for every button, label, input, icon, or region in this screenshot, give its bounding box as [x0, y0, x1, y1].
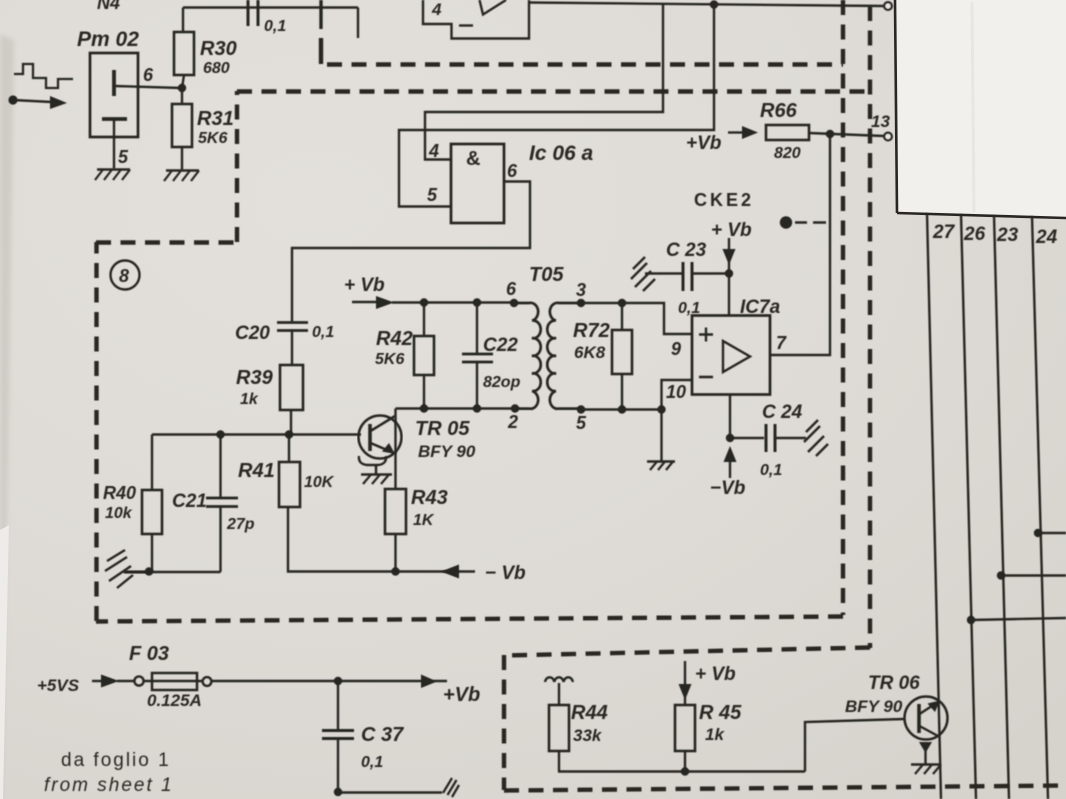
- ground Pm02 pin5 hatches: [95, 170, 130, 181]
- svg-text:8: 8: [119, 266, 129, 286]
- -Vb rail arrow head: [441, 565, 459, 579]
- svg-text:1K: 1K: [413, 512, 435, 529]
- junction dot R72 bottom: [618, 405, 626, 413]
- svg-text:R66: R66: [760, 100, 798, 122]
- wire R44 upper lead: [558, 683, 560, 705]
- junction dot base rail R39/R41: [285, 430, 293, 438]
- svg-text:0,1: 0,1: [760, 462, 782, 479]
- svg-text:C 37: C 37: [361, 724, 404, 746]
- wire R39 to base rail: [290, 410, 292, 435]
- transistor TR05 emitter diagonal: [371, 443, 394, 453]
- svg-text:26: 26: [963, 224, 986, 245]
- resistor R72 leads: [621, 303, 623, 410]
- svg-text:10: 10: [666, 382, 686, 402]
- op-amp IC7a triangle: [723, 341, 750, 372]
- wire IC7a pin10 path: [662, 380, 693, 410]
- junction dot +Vb rail R42: [420, 298, 428, 306]
- wire IC7a bottom supply: [729, 394, 731, 438]
- junction dot winding2 bottom: [511, 404, 519, 412]
- svg-text:10k: 10k: [105, 505, 133, 522]
- wire +Vb rail y302: [392, 301, 514, 303]
- svg-text:TR 06: TR 06: [868, 673, 920, 694]
- svg-text:680: 680: [203, 60, 230, 77]
- wire pin26 branch right: [971, 618, 1066, 620]
- svg-text:Ic 06 a: Ic 06 a: [529, 142, 594, 165]
- terminal top right circle: [884, 2, 892, 10]
- wire R43 lower lead: [394, 534, 396, 572]
- wire ground to rail left segment: [124, 571, 150, 573]
- svg-text:3: 3: [576, 280, 586, 300]
- svg-text:5: 5: [118, 147, 129, 167]
- wire C37 to bottom ground: [338, 791, 442, 793]
- svg-text:33k: 33k: [573, 726, 603, 745]
- svg-text:− Vb: − Vb: [485, 563, 526, 584]
- node CKE2 dot dashes: [795, 221, 826, 224]
- transistor TR06 circle: [905, 697, 948, 740]
- svg-text:27p: 27p: [226, 516, 255, 533]
- resistor R42 leads: [423, 303, 425, 409]
- dashed boundary vertical x237: [235, 91, 239, 242]
- junction dot winding5 bottom: [577, 405, 585, 413]
- wire R31 to ground: [181, 147, 183, 170]
- wire C24 left lead: [730, 437, 764, 439]
- wire top N4 horizontal: [183, 6, 358, 8]
- resistor R72 body: [612, 330, 632, 374]
- wire Pm02 pin5: [113, 119, 115, 169]
- wire TR05 base rail: [152, 433, 361, 435]
- wire IC7a pin7 output: [770, 134, 830, 355]
- wire R45 upper lead: [684, 697, 686, 705]
- svg-text:R31: R31: [197, 108, 234, 130]
- transistor TR05 circle: [359, 416, 402, 459]
- +Vb arrow right triangle R66: [742, 126, 758, 139]
- transistor TR06 emitter arrow: [928, 701, 941, 713]
- svg-text:R43: R43: [411, 487, 448, 509]
- svg-text:CKE2: CKE2: [694, 190, 754, 210]
- svg-text:+ Vb: + Vb: [344, 275, 385, 296]
- Pm02 crystal bar: [112, 70, 116, 96]
- junction dot C37 bottom: [334, 788, 342, 796]
- dashed boundary lower box bottom y790: [504, 786, 1066, 791]
- signal arrow line: [13, 100, 52, 102]
- wire R30 bottom to junction: [182, 75, 184, 104]
- +Vb arrow down triangle: [723, 249, 736, 265]
- resistor R43 body: [385, 489, 406, 534]
- capacitor C23 plates: [683, 262, 692, 291]
- wire +5VS lead: [92, 680, 102, 682]
- ground under TR06 hatches: [915, 765, 941, 775]
- svg-text:0,1: 0,1: [264, 18, 286, 35]
- capacitor C21 plates: [206, 498, 238, 507]
- svg-text:1k: 1k: [705, 725, 725, 744]
- svg-text:R41: R41: [238, 460, 275, 482]
- svg-text:IC7a: IC7a: [740, 297, 781, 318]
- junction dot C23 +Vb node: [725, 269, 733, 277]
- svg-text:R44: R44: [571, 702, 608, 724]
- wire C23 right lead to +Vb node: [692, 272, 729, 274]
- svg-text:da foglio 1: da foglio 1: [61, 750, 171, 771]
- wire pin24 branch right: [1038, 532, 1066, 534]
- connector pin27 line: [927, 213, 941, 799]
- wire R45 +Vb arrow lead: [684, 661, 686, 685]
- ground under TR05 bar: [361, 473, 392, 476]
- junction dot winding3 top: [577, 299, 585, 307]
- transistor TR06 base bar: [917, 704, 921, 733]
- wire -Vb arrow stem: [729, 462, 731, 478]
- capacitor C21 upper lead: [219, 435, 221, 498]
- resistor R39 body: [280, 365, 303, 410]
- junction dot pin10 ground: [657, 405, 665, 413]
- svg-text:R39: R39: [236, 367, 274, 389]
- ground bottom edge hatches: [443, 778, 459, 797]
- wire R44 lower lead: [558, 751, 560, 772]
- svg-text:5: 5: [427, 185, 438, 205]
- junction dot R30/R31: [178, 84, 186, 92]
- svg-text:T05: T05: [529, 264, 564, 286]
- svg-text:+Vb: +Vb: [686, 133, 722, 154]
- wire ground rail left segment: [124, 571, 221, 573]
- wire Pm02 pin6 to R30/R31 junction: [115, 86, 181, 88]
- transistor TR06 can arrow down: [919, 742, 932, 753]
- capacitor C37 upper lead: [337, 681, 339, 730]
- ground under TR05 hatches: [363, 475, 389, 485]
- ground for C23 hatches: [631, 257, 655, 291]
- paper left edge dark strip: [0, 34, 14, 799]
- wire arrow to fuse circle: [117, 680, 134, 682]
- +Vb arrow down triangle R45: [679, 684, 692, 700]
- svg-text:R30: R30: [200, 38, 237, 60]
- transistor TR05 can arc: [359, 456, 386, 465]
- transistor TR06 emitter diagonal up: [920, 702, 939, 714]
- ground R31 hatches: [164, 171, 199, 182]
- resistor R41 body: [279, 462, 300, 507]
- ground Pm02 pin5 bar: [97, 168, 130, 171]
- capacitor C24 plates: [766, 424, 775, 452]
- svg-text:23: 23: [996, 225, 1019, 246]
- junction dot pin23 branch: [997, 571, 1005, 579]
- ground R31 bar: [166, 169, 199, 172]
- junction dot C37 tap: [334, 677, 342, 685]
- fuse F03 left circle: [134, 676, 143, 685]
- wire R45 lower lead: [684, 751, 686, 772]
- wire NAND output pin6 path: [292, 182, 530, 323]
- node 8 circle: [111, 261, 140, 290]
- svg-text:820: 820: [774, 145, 801, 162]
- white module block top right: [895, 0, 1066, 218]
- svg-text:7: 7: [776, 333, 787, 353]
- svg-text:0,1: 0,1: [361, 754, 383, 771]
- wire corner x358 into dashed block: [357, 8, 359, 39]
- capacitor 0,1 top plates: [248, 0, 258, 26]
- junction dot collector rail C22: [473, 404, 481, 412]
- dashed boundary vertical x870: [868, 6, 872, 648]
- svg-text:2: 2: [507, 412, 518, 432]
- transistor TR05 base bar: [368, 424, 372, 451]
- svg-text:5K6: 5K6: [198, 130, 227, 147]
- wire C23 left lead: [645, 272, 682, 274]
- svg-text:C 24: C 24: [762, 402, 803, 423]
- wire TR05 collector rail y408: [396, 407, 516, 409]
- svg-text:0.125A: 0.125A: [147, 691, 202, 710]
- svg-text:N4: N4: [97, 0, 120, 13]
- transistor TR05 collector/emitter vertical: [394, 409, 396, 490]
- wire R40 upper lead: [151, 435, 153, 491]
- signal arrow head: [50, 96, 67, 109]
- svg-text:6K8: 6K8: [574, 343, 606, 362]
- wire ground drop below pin10 junction: [660, 410, 662, 462]
- NAND Ic06a box: [451, 144, 504, 223]
- svg-text:13: 13: [871, 112, 890, 131]
- ground below transformer bar: [647, 460, 675, 463]
- wire secondary bottom rail: [581, 408, 662, 410]
- resistor R31 body: [172, 104, 192, 147]
- svg-text:+ Vb: + Vb: [711, 220, 752, 241]
- signal dot: [8, 95, 17, 104]
- svg-text:BFY 90: BFY 90: [845, 697, 903, 716]
- ground left of -Vb rail hatches: [105, 550, 133, 588]
- svg-text:6: 6: [506, 279, 517, 299]
- dashed boundary y650 lower box top: [504, 648, 870, 656]
- svg-text:5K6: 5K6: [375, 351, 404, 368]
- capacitor C37 plates: [322, 731, 354, 739]
- svg-text:6: 6: [507, 161, 518, 181]
- svg-text:6: 6: [143, 65, 154, 85]
- svg-text:0,1: 0,1: [312, 324, 334, 341]
- ground under TR06 bar: [911, 763, 939, 766]
- transistor TR06 can stem: [924, 751, 926, 764]
- dashed boundary top horizontal y64: [327, 62, 843, 66]
- +5VS arrow head: [101, 675, 119, 688]
- svg-text:+Vb: +Vb: [443, 684, 480, 706]
- svg-text:82op: 82op: [483, 374, 521, 391]
- svg-text:R72: R72: [573, 320, 610, 342]
- junction dot pin24 branch: [1034, 529, 1042, 537]
- wire fuse to +Vb: [212, 680, 447, 682]
- svg-text:R 45: R 45: [699, 702, 742, 724]
- waveform step symbol: [14, 64, 73, 88]
- transformer T05 primary winding: [514, 303, 541, 409]
- wire R41 lower lead and -Vb rail: [288, 507, 475, 572]
- svg-text:F 03: F 03: [129, 643, 169, 665]
- Pm02 lower contact bar: [102, 117, 127, 121]
- svg-text:BFY 90: BFY 90: [418, 442, 476, 461]
- svg-text:−Vb: −Vb: [710, 478, 746, 499]
- dashed boundary vertical at x321 upper: [319, 38, 323, 64]
- transistor TR05 can stem: [375, 465, 378, 475]
- fuse F03 right circle: [203, 677, 212, 686]
- wire top rail to terminal: [529, 3, 884, 7]
- svg-text:Pm 02: Pm 02: [77, 28, 139, 51]
- wire +Vb node arrow lead upper: [728, 238, 730, 249]
- svg-text:4: 4: [431, 0, 442, 19]
- svg-text:C20: C20: [235, 323, 270, 344]
- +Vb oscillator arrow head: [376, 296, 394, 309]
- wire R66 to pin13: [809, 133, 884, 136]
- svg-text:+5VS: +5VS: [37, 676, 80, 695]
- capacitor C22 plates: [462, 354, 493, 362]
- junction dot +Vb rail C22: [473, 298, 481, 306]
- op-amp U(top) box outline: [423, 0, 529, 39]
- capacitor C20 lead lower: [291, 331, 293, 365]
- ground for C24 hatches: [804, 420, 828, 456]
- connector pin26 line: [961, 214, 976, 799]
- junction dot R45 bottom: [681, 767, 689, 775]
- svg-text:1k: 1k: [240, 391, 259, 408]
- wire R40 lower lead: [151, 534, 153, 572]
- capacitor C22 leads: [476, 303, 478, 409]
- svg-text:from sheet 1: from sheet 1: [44, 775, 174, 796]
- transformer T05 secondary winding: [547, 303, 581, 409]
- capacitor C37 lower lead: [337, 739, 339, 792]
- wire +Vb oscillator rail lead: [352, 301, 376, 303]
- resistor R66 body: [766, 125, 809, 140]
- junction dot winding6 top: [510, 299, 518, 307]
- svg-text:C21: C21: [172, 491, 207, 512]
- Pm02 box: [90, 53, 138, 137]
- svg-text:4: 4: [428, 141, 439, 161]
- white block bottom edge: [897, 213, 1066, 218]
- capacitor C21 lower lead: [219, 507, 221, 572]
- node CKE2 dot: [780, 216, 792, 228]
- op-amp IC7a plus sign: [699, 328, 713, 342]
- junction dot R66 output: [826, 130, 834, 138]
- white block left edge: [895, 0, 897, 213]
- white block fold line: [972, 2, 974, 212]
- junction dot base rail C21: [216, 430, 224, 438]
- op-amp U(top) triangle partial: [480, 0, 507, 15]
- junction dot -Vb rail R43: [391, 567, 399, 575]
- crown symbol above R44: [545, 677, 573, 682]
- resistor R42 body: [414, 336, 434, 375]
- wire +Vb node into IC7a top: [728, 260, 730, 316]
- transistor TR05 collector diagonal: [371, 416, 396, 431]
- wire TR06 base from R45 rail: [805, 719, 904, 772]
- resistor R45 body: [675, 705, 695, 751]
- junction dot top rail x714: [710, 0, 718, 8]
- wire +Vb lead to R66: [728, 131, 742, 133]
- dashed boundary y91 horizontal: [237, 89, 870, 93]
- svg-text:9: 9: [671, 339, 681, 359]
- ground below transformer hatches: [650, 462, 673, 471]
- +Vb arrow head bottom: [421, 675, 437, 689]
- wire R41 upper lead: [288, 435, 290, 463]
- svg-text:TR 05: TR 05: [415, 418, 470, 440]
- connector pin24 line: [1032, 216, 1048, 799]
- -Vb arrow up triangle: [724, 446, 737, 462]
- connector pin23 line: [994, 215, 1009, 799]
- wire secondary top to pin9 corner: [581, 303, 692, 334]
- svg-text:R40: R40: [103, 483, 136, 503]
- junction dot collector rail R42: [420, 404, 428, 412]
- wire NAND pin4 path: [425, 4, 663, 160]
- wire R30 top riser: [182, 8, 184, 33]
- svg-text:27: 27: [932, 222, 956, 243]
- dashed boundary box8 left x96: [94, 242, 98, 621]
- svg-text:C22: C22: [483, 335, 518, 356]
- op-amp U(top) minus input bar: [459, 24, 473, 26]
- junction dot pin26 branch: [967, 616, 975, 624]
- resistor R30 body: [174, 32, 194, 75]
- svg-text:C 23: C 23: [666, 240, 707, 261]
- op-amp IC7a minus sign: [699, 376, 713, 379]
- svg-text:24: 24: [1035, 227, 1058, 248]
- dashed boundary vertical x843: [841, 0, 845, 615]
- transistor TR06 collector diagonal down: [920, 726, 939, 736]
- dashed boundary box8 bottom y618: [96, 617, 843, 622]
- dashed boundary y242 horizontal: [96, 240, 237, 244]
- dashed boundary lower box left x504: [502, 655, 506, 790]
- svg-text:10K: 10K: [304, 474, 335, 491]
- op-amp IC7a box: [692, 316, 770, 395]
- wire pin23 branch right: [1001, 574, 1066, 576]
- wire R44 R45 bottom rail: [558, 770, 805, 772]
- resistor R40 body: [142, 490, 162, 534]
- transistor TR05 emitter arrow: [382, 443, 395, 454]
- wire bar x321 crossing: [319, 0, 322, 29]
- junction dot ground rail R40: [145, 567, 153, 575]
- svg-text:5: 5: [576, 413, 587, 433]
- svg-text:&: &: [466, 148, 480, 170]
- wire NAND pin5 path: [399, 5, 714, 207]
- fuse F03 body: [152, 673, 197, 690]
- wire C24 right lead: [775, 437, 806, 439]
- paper left edge bottom light: [0, 525, 9, 799]
- resistor R44 body: [549, 705, 569, 751]
- fuse F03 through line: [144, 680, 202, 682]
- junction dot R72 top: [618, 299, 626, 307]
- svg-text:0,1: 0,1: [678, 300, 700, 317]
- junction dot IC7a supply C24: [726, 434, 734, 442]
- terminal pin13 circle: [884, 133, 892, 141]
- svg-text:+ Vb: + Vb: [695, 664, 736, 685]
- svg-text:R42: R42: [376, 328, 413, 350]
- capacitor C20 plates: [277, 323, 308, 331]
